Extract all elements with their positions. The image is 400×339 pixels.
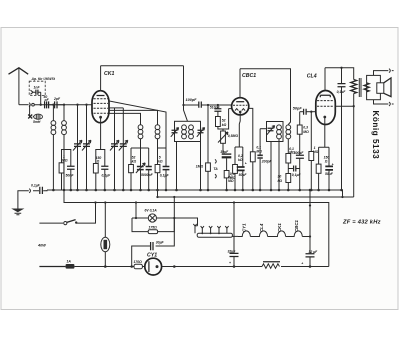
svg-text:CBC1: CBC1 [242,73,256,79]
wire antenna lead-in [19,104,29,106]
trimmer gang2a tuning cap [110,108,119,191]
wire osc grid top [109,101,166,190]
svg-text:Ap. für UKWSt: Ap. für UKWSt [31,77,56,81]
dashed box UKW adapter [29,77,56,106]
capacitor 500µF [294,151,305,191]
ground wire with capacitor 0.1µF [18,183,47,208]
svg-text:König 5133: König 5133 [371,111,380,160]
svg-text:+: + [301,261,303,265]
resistor 0.3MOhm grid [297,112,309,155]
fuse 1A [66,259,134,268]
wire osc coil lead [109,113,141,124]
resistor lamp shunt [132,218,174,234]
cathode chain CL4 tee [319,125,329,148]
voltage selector [193,224,238,237]
capacitor 32µF filter2 [301,190,318,268]
capacitor 50µF cathode electrolytic [237,147,248,191]
trimmer padder osc [136,148,145,191]
antenna [9,68,29,105]
resistor 52kOhm [216,109,232,129]
choke smoothing [262,262,329,269]
svg-text:kΩ: kΩ [222,123,227,127]
resistor 30kOhm [278,174,291,192]
coil L2 antenna [62,104,67,192]
resistor 0.1MOhm diode filter [249,108,262,191]
heater CBC1 [286,219,312,237]
capacitor 0.1µF tone [337,68,347,192]
svg-text:kΩ: kΩ [238,158,243,162]
wire lamp feed drop [173,197,175,218]
resistor 0.5MOhm AF [224,158,235,191]
capacitor 32µF filter1 [228,203,239,268]
cathode chain CBC1 tee [235,115,243,147]
svg-text:50pF: 50pF [293,107,303,111]
svg-text:1nF: 1nF [34,86,41,90]
svg-text:MΩ: MΩ [62,159,68,163]
resistor 170Ohm CY1 [134,260,145,269]
svg-text:+: + [332,162,334,166]
svg-text:40W: 40W [37,244,46,248]
coil L1 antenna [51,104,56,192]
svg-text:kΩ: kΩ [158,159,163,163]
svg-text:6V 0,1A: 6V 0,1A [145,209,158,213]
bus ground main [47,190,343,197]
svg-text:2pF: 2pF [53,97,61,101]
svg-text:CK1: CK1 [104,71,114,77]
output transformer secondary [364,83,369,92]
svg-text:CY1: CY1 [147,252,157,258]
coil L3 oscillator [138,125,143,146]
resistor 1MOhm diode load [196,105,211,191]
svg-text:50nF: 50nF [66,174,75,178]
svg-text:175Ω: 175Ω [149,226,158,230]
capacitor 200pF [257,129,272,192]
resistor 1MOhm grid leak [309,112,319,192]
capacitor 10nF stub [288,166,301,178]
capacitor 30µF electrolytic [220,143,231,158]
capacitor 50pF series [44,95,50,108]
svg-text:0,1µF: 0,1µF [31,183,41,187]
IF transformer IFT2 [260,122,283,192]
trimmer gang2b tuning cap [119,108,128,191]
svg-text:30µF: 30µF [220,150,229,154]
speaker [367,69,394,106]
tube CK1 [92,66,114,123]
heater CL4 [250,223,267,236]
bus B+ rail [158,196,354,198]
capacitor 2pF series [49,97,64,109]
heater CY1 [238,223,250,237]
switch mains [39,203,95,225]
svg-text:0,1µF: 0,1µF [160,174,170,178]
wire CL4 screen to B+ [335,105,353,107]
ballast tube [101,203,110,268]
svg-text:5mH: 5mH [33,120,41,124]
rail selector [309,204,311,206]
svg-text:ZF = 432 kHz: ZF = 432 kHz [342,219,381,225]
svg-text:TA: TA [213,167,218,171]
node osc tank tee [131,139,166,148]
svg-text:+: + [229,261,231,265]
capacitor 510pF [210,105,222,117]
svg-text:30µF: 30µF [156,240,165,244]
svg-text:CL4: CL4 [307,73,317,79]
trimmer gang1b tuning cap [82,104,91,192]
wire CBC1 plate rail [240,69,291,125]
svg-text:MΩ: MΩ [228,179,234,183]
tube CL4 [307,68,336,125]
svg-text:500µF: 500µF [294,151,305,155]
svg-text:+: + [245,162,247,166]
wire to series caps [34,104,91,106]
capacitor 0.1µF cathode CK1 [101,150,112,192]
heater CK1 [268,223,286,237]
capacitor 0.1µF mixer [160,167,170,192]
svg-text:0,5MΩ: 0,5MΩ [228,134,239,138]
resistor 0.1MOhm cathode CBC1 [228,147,237,191]
connector TA pickup jacks [213,159,218,178]
wire gang2 lead [109,107,124,109]
connector frame aerial + coil [28,105,42,124]
resistor 5kOhm osc [155,148,163,197]
svg-text:kΩ: kΩ [278,179,283,183]
transformer core [359,78,361,97]
rail heater feed left [64,190,329,267]
resistor 52kOhm osc [129,148,137,191]
connector antenna jack [29,103,34,107]
capacitor 5000pF [141,148,154,191]
capacitor 50pF AF coupling [293,107,316,115]
svg-text:kΩ: kΩ [132,159,137,163]
wire CL4 plate rail [325,68,354,80]
capacitor 100pF coupling [182,98,231,108]
dial lamp [132,209,198,226]
capacitor 50nF AVC [64,150,75,192]
wire coil L4 top lead [109,110,158,124]
potentiometer 0.5MOhm volume [218,129,238,149]
ground symbol [11,209,24,215]
svg-text:MΩ: MΩ [303,130,309,134]
capacitor 30µF reservoir [130,218,175,268]
coil IFT2 secondary [286,125,291,139]
svg-text:1MΩ: 1MΩ [196,165,204,169]
cathode chain CK1 resistor 150Ohm [93,122,101,191]
output transformer primary [351,80,357,198]
svg-text:170Ω: 170Ω [134,260,143,264]
svg-text:0,1µF: 0,1µF [102,173,112,177]
wire DC rail bottom [234,266,262,268]
IF transformer IFT1 [171,121,205,191]
resistor 1MOhm AVC [59,150,68,191]
svg-text:5000pF: 5000pF [141,173,154,177]
resistor 0.1MOhm IF [286,139,295,174]
svg-text:Ω: Ω [324,159,328,163]
tube CY1 rectifier [145,252,234,275]
trimmer gang1a tuning cap [73,104,82,192]
svg-text:1A: 1A [67,259,72,263]
tube CBC1 [232,69,257,115]
wire mains line [39,266,65,268]
svg-text:100pF: 100pF [186,98,198,102]
resistor 150Ohm cathode CL4 [316,147,321,191]
wire CK1 plate drop to IFT1 [184,66,188,122]
wire plate rail CK1 [101,65,184,67]
coil L4 oscillator [155,125,160,164]
svg-text:MΩ: MΩ [256,150,262,154]
capacitor 50µF cathode CL4 [324,147,334,191]
svg-text:CBC1: CBC1 [294,219,299,232]
